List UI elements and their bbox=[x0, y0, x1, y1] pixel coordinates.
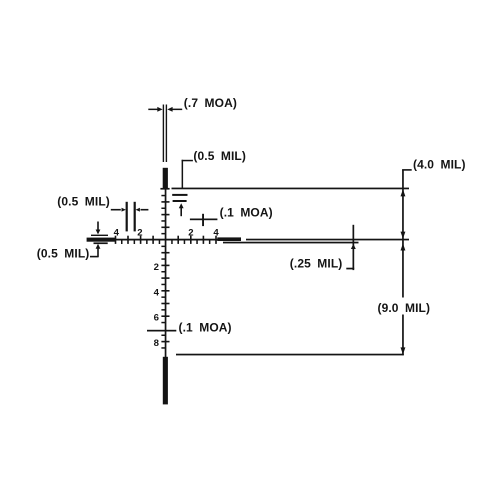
horizontal half-mil ticks right bbox=[171, 240, 210, 244]
svg-text:(.1 MOA): (.1 MOA) bbox=[220, 206, 273, 220]
left gap symbol: bar 2 bbox=[134, 202, 136, 232]
left gap symbol: bar 1 bbox=[126, 202, 128, 232]
right dimension vertical line lower segment bbox=[402, 315, 404, 356]
svg-text:2: 2 bbox=[137, 227, 142, 238]
svg-text:(.7 MOA): (.7 MOA) bbox=[184, 96, 237, 110]
top dimension line 4.0 MIL bbox=[172, 188, 410, 190]
up arrow below replica bars bbox=[179, 203, 184, 216]
lower offset line right bbox=[223, 242, 359, 244]
horizontal half-mil ticks left bbox=[121, 240, 160, 244]
svg-text:(9.0 MIL): (9.0 MIL) bbox=[378, 301, 431, 315]
dimension arrow right of hollow post bbox=[167, 107, 182, 112]
down arrow above left post bbox=[96, 222, 101, 235]
bracket for 4.0 MIL label bbox=[402, 169, 412, 171]
arrow up from below crosshair bbox=[401, 243, 406, 250]
horizontal crosshair thin line left-center bbox=[110, 239, 241, 241]
horizontal crosshair thin line right extension bbox=[246, 239, 409, 241]
top hollow post left edge bbox=[163, 105, 164, 163]
svg-text:(0.5 MIL): (0.5 MIL) bbox=[57, 195, 110, 209]
vertical half-mil ticks below center bbox=[161, 246, 166, 349]
vertical half-mil ticks above center bbox=[161, 195, 166, 235]
vertical mil ticks above center bbox=[161, 201, 169, 228]
bracket to bottom-left 0.5 MIL label bbox=[90, 256, 99, 258]
left gap symbol: right leader with arrow bbox=[136, 208, 149, 212]
vertical crosshair thin line bbox=[165, 188, 167, 357]
bottom dimension line 9.0 MIL bbox=[176, 354, 404, 356]
replica tick bar 2 bbox=[173, 200, 187, 202]
vertical mil ticks below center bbox=[161, 252, 169, 343]
svg-text:(0.5 MIL): (0.5 MIL) bbox=[37, 247, 90, 261]
svg-text:2: 2 bbox=[188, 227, 193, 238]
left heavy post bbox=[87, 238, 115, 242]
.1 MOA upper symbol tick bbox=[202, 214, 204, 226]
arrow down to crosshair top bbox=[401, 232, 406, 239]
svg-text:(.1 MOA): (.1 MOA) bbox=[179, 321, 232, 335]
svg-text:4: 4 bbox=[154, 287, 160, 298]
top hollow post right edge bbox=[166, 105, 167, 163]
svg-text:8: 8 bbox=[154, 338, 160, 349]
bracket horizontal for .25 MIL bbox=[346, 268, 354, 270]
up arrow below left post bbox=[96, 244, 101, 257]
top heavy post bbox=[163, 168, 168, 189]
replica tick bar 1 bbox=[172, 194, 187, 196]
extension line above left post bbox=[91, 235, 108, 236]
.1 MOA upper symbol leader bbox=[190, 219, 218, 221]
horizontal mil ticks right bbox=[177, 236, 216, 244]
horizontal mil ticks left bbox=[115, 236, 154, 244]
svg-text:2: 2 bbox=[154, 262, 159, 273]
right heavy bar bbox=[217, 237, 241, 241]
arrow up to 4.0 top bbox=[401, 189, 406, 196]
svg-text:(4.0 MIL): (4.0 MIL) bbox=[413, 157, 466, 171]
svg-text:6: 6 bbox=[154, 313, 159, 324]
bracket for top 0.5 MIL label bbox=[182, 160, 193, 188]
svg-text:(0.5 MIL): (0.5 MIL) bbox=[193, 149, 246, 163]
bottom .1 MOA elongated tick bbox=[147, 330, 176, 332]
svg-text:4: 4 bbox=[114, 227, 120, 238]
wide tick at top post base bbox=[160, 188, 169, 190]
right dimension vertical line upper segment bbox=[402, 170, 404, 298]
svg-text:4: 4 bbox=[213, 227, 219, 238]
dimension arrow left of hollow post bbox=[148, 107, 162, 112]
bottom heavy post bbox=[163, 357, 168, 405]
svg-text:(.25 MIL): (.25 MIL) bbox=[290, 257, 343, 271]
extension line below left post bbox=[94, 242, 108, 244]
end tick and bracket vertical for .25 MIL bbox=[351, 225, 356, 270]
arrow down to 9.0 bottom bbox=[401, 347, 406, 354]
left gap symbol: left leader with arrow bbox=[111, 208, 126, 212]
